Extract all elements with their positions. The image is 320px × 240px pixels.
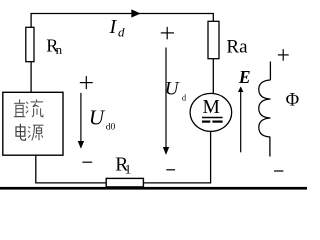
svg-text:Ra: Ra (226, 36, 248, 57)
svg-text:d0: d0 (106, 123, 116, 133)
svg-text:U: U (165, 78, 180, 99)
svg-text:Φ: Φ (286, 90, 300, 110)
svg-text:1: 1 (125, 162, 132, 177)
svg-text:M: M (203, 97, 220, 118)
svg-text:E: E (238, 67, 251, 87)
svg-text:n: n (56, 42, 63, 57)
svg-text:d: d (118, 25, 125, 40)
svg-text:U: U (89, 106, 106, 130)
svg-text:I: I (109, 16, 118, 38)
svg-text:d: d (182, 92, 187, 102)
